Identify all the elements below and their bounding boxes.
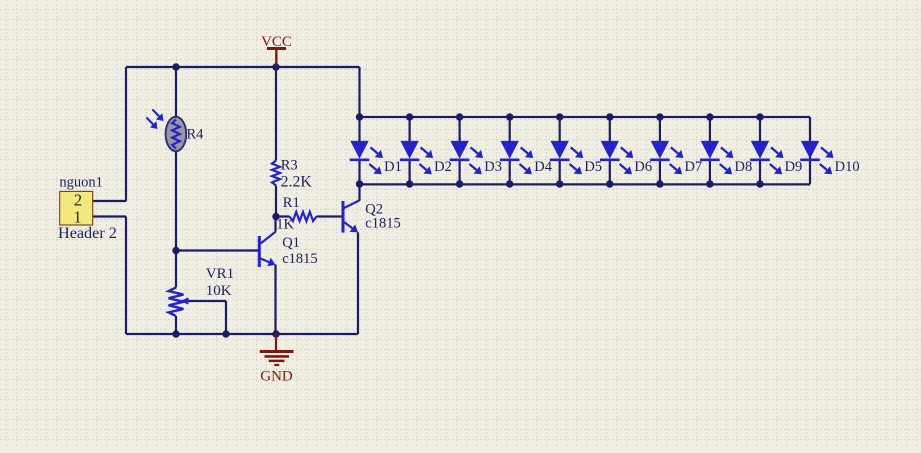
svg-text:D1: D1 bbox=[384, 159, 402, 175]
svg-text:D10: D10 bbox=[835, 159, 860, 175]
svg-text:R4: R4 bbox=[187, 127, 205, 143]
svg-text:D2: D2 bbox=[434, 159, 452, 175]
svg-text:D8: D8 bbox=[735, 159, 753, 175]
svg-text:R3: R3 bbox=[281, 157, 298, 173]
svg-text:VCC: VCC bbox=[261, 34, 292, 50]
svg-text:R1: R1 bbox=[283, 195, 300, 211]
svg-text:nguon1: nguon1 bbox=[59, 175, 103, 191]
svg-text:GND: GND bbox=[260, 369, 293, 385]
svg-text:10K: 10K bbox=[206, 283, 232, 299]
svg-text:D6: D6 bbox=[634, 159, 652, 175]
svg-text:c1815: c1815 bbox=[365, 215, 400, 231]
svg-text:Header 2: Header 2 bbox=[58, 224, 117, 242]
svg-text:1K: 1K bbox=[276, 217, 294, 233]
svg-text:D5: D5 bbox=[584, 159, 602, 175]
svg-text:VR1: VR1 bbox=[206, 266, 234, 282]
svg-text:2.2K: 2.2K bbox=[281, 173, 313, 190]
svg-text:D7: D7 bbox=[684, 159, 702, 175]
svg-text:D4: D4 bbox=[534, 159, 552, 175]
svg-text:1: 1 bbox=[73, 207, 81, 226]
svg-text:D3: D3 bbox=[484, 159, 502, 175]
svg-text:c1815: c1815 bbox=[282, 251, 317, 267]
svg-text:Q1: Q1 bbox=[282, 235, 300, 251]
svg-text:D9: D9 bbox=[785, 159, 803, 175]
